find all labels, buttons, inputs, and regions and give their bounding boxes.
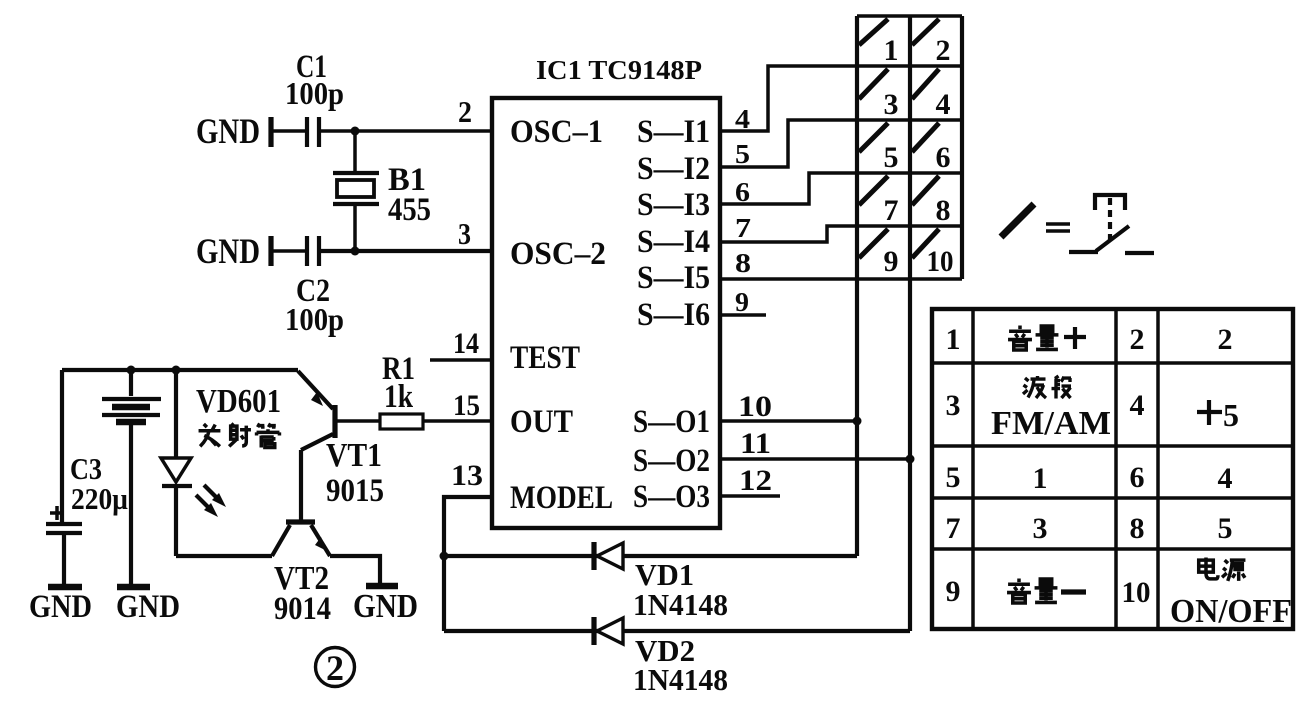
svg-text:9: 9 bbox=[884, 245, 899, 278]
wire column B down to VD2 bbox=[908, 279, 912, 631]
label C3 220u bbox=[70, 451, 128, 516]
wire column A down to VD1 bbox=[855, 279, 859, 556]
node junction pin13/VD1 bbox=[440, 552, 449, 561]
switch key4 bbox=[912, 69, 939, 99]
table cell power ON/OFF bbox=[1170, 558, 1292, 630]
svg-text:OUT: OUT bbox=[510, 404, 573, 440]
svg-text:10: 10 bbox=[927, 245, 954, 278]
svg-text:7: 7 bbox=[946, 512, 961, 545]
wire pin7 to keypad row4 bbox=[719, 226, 857, 242]
svg-text:4: 4 bbox=[936, 88, 951, 121]
pin 14 stub bbox=[430, 358, 492, 362]
legend pushbutton switch bbox=[1069, 195, 1154, 253]
wire pin12 stub bbox=[719, 494, 780, 498]
wire pin10 S-O1 to column A bbox=[719, 419, 857, 423]
svg-text:ON/OFF: ON/OFF bbox=[1170, 593, 1292, 630]
svg-text:9014: 9014 bbox=[274, 591, 331, 627]
label C2 100p bbox=[285, 273, 344, 337]
transistor VT2 bbox=[272, 522, 330, 556]
svg-text:8: 8 bbox=[936, 194, 951, 227]
table cell volume minus bbox=[1007, 579, 1086, 603]
svg-text:14: 14 bbox=[453, 327, 479, 360]
pin 13 wire to MODEL bbox=[444, 497, 492, 631]
svg-text:S—I2: S—I2 bbox=[637, 151, 710, 187]
label VT1 9015 bbox=[326, 437, 384, 509]
legend slash symbol bbox=[1001, 204, 1034, 237]
svg-text:5: 5 bbox=[946, 461, 961, 494]
svg-text:10: 10 bbox=[738, 390, 772, 423]
svg-text:2: 2 bbox=[1130, 323, 1145, 356]
svg-text:455: 455 bbox=[388, 192, 431, 228]
svg-text:1: 1 bbox=[884, 34, 899, 67]
diode VD1 bbox=[444, 542, 857, 570]
label B1 455 bbox=[388, 162, 431, 228]
switch key5 bbox=[859, 123, 888, 152]
svg-text:3: 3 bbox=[946, 389, 961, 422]
svg-text:1N4148: 1N4148 bbox=[633, 662, 728, 697]
svg-text:2: 2 bbox=[326, 648, 344, 688]
node junction battery top bbox=[127, 366, 136, 375]
wire pin5 to keypad row2 bbox=[719, 120, 857, 167]
ground terminal OSC-2 bbox=[268, 236, 273, 266]
svg-text:1: 1 bbox=[1033, 462, 1048, 495]
diode VD2 bbox=[444, 617, 910, 645]
switch key6 bbox=[912, 123, 939, 152]
svg-text:S—I5: S—I5 bbox=[637, 260, 710, 296]
svg-text:1k: 1k bbox=[384, 379, 414, 415]
svg-text:3: 3 bbox=[884, 88, 899, 121]
svg-text:GND: GND bbox=[29, 589, 92, 625]
switch key2 bbox=[912, 19, 939, 45]
label VD1 1N4148 bbox=[633, 557, 728, 622]
svg-text:7: 7 bbox=[884, 194, 899, 227]
svg-text:6: 6 bbox=[936, 141, 951, 174]
svg-text:9: 9 bbox=[946, 575, 961, 608]
svg-text:S—I4: S—I4 bbox=[637, 224, 710, 260]
svg-text:IC1 TC9148P: IC1 TC9148P bbox=[536, 55, 702, 85]
op IC1 TC9148P box bbox=[492, 98, 720, 528]
keypad matrix grid bbox=[857, 16, 962, 279]
svg-text:S—I6: S—I6 bbox=[637, 297, 710, 333]
wire LED cathode to VT2 bbox=[176, 554, 272, 558]
wire pin9 stub bbox=[719, 313, 766, 317]
label C1 100p bbox=[285, 49, 344, 111]
svg-text:4: 4 bbox=[1130, 389, 1145, 422]
svg-text:S—O3: S—O3 bbox=[633, 479, 710, 515]
svg-text:11: 11 bbox=[740, 427, 771, 460]
label 发射管 bbox=[199, 424, 280, 448]
svg-text:100p: 100p bbox=[285, 301, 344, 337]
key function table grid bbox=[932, 309, 1293, 629]
switch key9 bbox=[859, 229, 888, 258]
svg-text:2: 2 bbox=[1218, 323, 1233, 356]
svg-text:2: 2 bbox=[936, 34, 951, 67]
wire VT2 emitter to ground bbox=[330, 556, 380, 583]
svg-text:100p: 100p bbox=[285, 75, 344, 111]
svg-text:GND: GND bbox=[353, 588, 418, 625]
svg-text:13: 13 bbox=[451, 459, 483, 492]
svg-text:S—I3: S—I3 bbox=[637, 187, 710, 223]
ground under C3 bbox=[29, 587, 92, 625]
svg-text:220µ: 220µ bbox=[71, 481, 128, 516]
transistor VT1 bbox=[298, 371, 335, 522]
svg-text:3: 3 bbox=[1033, 512, 1048, 545]
svg-text:4: 4 bbox=[1218, 462, 1233, 495]
ground terminal OSC-1 bbox=[268, 117, 273, 147]
wire pin2 bbox=[319, 129, 492, 133]
svg-text:GND: GND bbox=[196, 231, 260, 271]
svg-text:6: 6 bbox=[735, 177, 750, 207]
svg-text:VT1: VT1 bbox=[326, 437, 382, 474]
svg-text:8: 8 bbox=[735, 248, 751, 278]
label VD2 1N4148 bbox=[633, 633, 728, 697]
svg-text:FM/AM: FM/AM bbox=[991, 405, 1111, 442]
svg-text:1N4148: 1N4148 bbox=[633, 587, 728, 622]
svg-text:2: 2 bbox=[458, 94, 472, 129]
svg-text:VD601: VD601 bbox=[196, 383, 281, 420]
node junction C1/B1 bbox=[351, 127, 360, 136]
label R1 1k bbox=[382, 351, 415, 415]
wire left vertical to C3 bbox=[60, 370, 64, 523]
capacitor C1 bbox=[271, 117, 319, 147]
battery GB bbox=[102, 370, 161, 584]
svg-text:OSC–1: OSC–1 bbox=[510, 114, 603, 150]
resistor R1 bbox=[335, 414, 492, 429]
svg-text:S—I1: S—I1 bbox=[637, 114, 710, 150]
svg-text:8: 8 bbox=[1130, 512, 1145, 545]
svg-text:9015: 9015 bbox=[326, 473, 384, 509]
node junction S-O2/column bbox=[906, 455, 915, 464]
svg-text:6: 6 bbox=[1130, 461, 1145, 494]
legend equals sign bbox=[1046, 224, 1070, 231]
switch key7 bbox=[859, 176, 888, 205]
svg-text:TEST: TEST bbox=[510, 340, 580, 376]
svg-text:S—O1: S—O1 bbox=[633, 404, 710, 440]
svg-text:9: 9 bbox=[735, 287, 749, 317]
svg-text:GND: GND bbox=[196, 111, 260, 151]
svg-text:4: 4 bbox=[735, 104, 750, 134]
wire top supply rail bbox=[62, 368, 298, 372]
table cell band FM/AM bbox=[991, 376, 1111, 442]
circled figure number 2 bbox=[316, 648, 355, 689]
capacitor C3 bbox=[46, 506, 82, 584]
svg-text:1: 1 bbox=[946, 323, 961, 356]
svg-text:OSC–2: OSC–2 bbox=[510, 236, 606, 272]
svg-text:5: 5 bbox=[1218, 512, 1233, 545]
switch key3 bbox=[859, 69, 888, 99]
svg-text:MODEL: MODEL bbox=[510, 480, 613, 516]
capacitor C2 bbox=[271, 236, 319, 266]
wire pin3 bbox=[319, 249, 492, 253]
svg-text:5: 5 bbox=[884, 141, 899, 174]
node junction LED top bbox=[172, 366, 181, 375]
crystal B1 bbox=[333, 131, 379, 251]
LED VD601 infrared emitter bbox=[161, 370, 226, 556]
svg-text:GND: GND bbox=[116, 589, 180, 625]
wire pin6 to keypad row3 bbox=[719, 173, 857, 204]
ground under battery bbox=[116, 587, 180, 625]
wire pin11 S-O2 to column B bbox=[719, 457, 910, 461]
svg-text:12: 12 bbox=[739, 464, 772, 497]
switch key1 bbox=[859, 19, 888, 45]
table cell value +5 bbox=[1197, 397, 1239, 433]
svg-text:5: 5 bbox=[1223, 397, 1239, 433]
label VT2 9014 bbox=[274, 560, 331, 627]
switch key10 bbox=[912, 229, 939, 258]
node junction S-O1/column bbox=[853, 417, 862, 426]
svg-text:3: 3 bbox=[458, 216, 471, 251]
table cell volume plus bbox=[1008, 326, 1086, 350]
svg-text:S—O2: S—O2 bbox=[633, 443, 710, 479]
node junction C2/B1 bbox=[351, 247, 360, 256]
svg-text:5: 5 bbox=[735, 139, 750, 169]
wire pin8 to keypad row5 bbox=[719, 277, 857, 281]
svg-text:15: 15 bbox=[453, 389, 480, 422]
switch key8 bbox=[912, 176, 939, 205]
wire pin4 to keypad row1 bbox=[719, 66, 857, 131]
svg-text:7: 7 bbox=[735, 213, 751, 243]
ground at VT2 emitter bbox=[353, 586, 418, 625]
svg-text:10: 10 bbox=[1122, 576, 1151, 609]
